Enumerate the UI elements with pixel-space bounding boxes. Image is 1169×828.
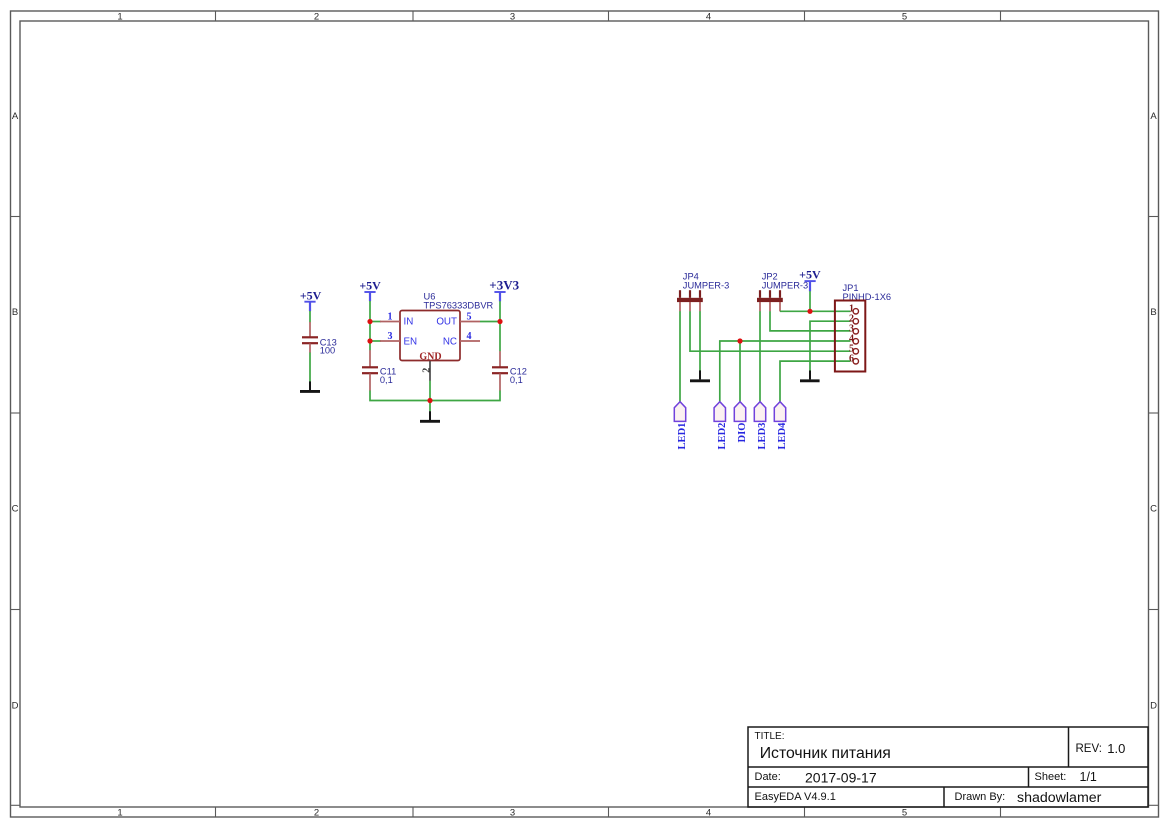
title block DrawnBy divider [943, 787, 945, 807]
power +5V symbol (C13) [304, 302, 315, 312]
column numbers bottom [117, 807, 907, 818]
svg-text:JUMPER-3: JUMPER-3 [762, 280, 809, 290]
wire +5V to C13 [309, 311, 311, 322]
capacitor C12 [492, 351, 508, 391]
svg-text:4: 4 [706, 11, 711, 22]
power +3V3 symbol [494, 292, 505, 301]
junction out rail [497, 319, 502, 324]
column ticks bottom [216, 807, 1001, 817]
right strip bottom tick [1149, 804, 1159, 806]
wire JP2 pin1 to LED3 [759, 311, 761, 402]
svg-text:3: 3 [510, 11, 515, 22]
title block Sheet divider [1028, 767, 1030, 787]
wire node to pin3 [370, 340, 381, 342]
jumper JP2 [757, 290, 783, 311]
U6 pin 3 line [380, 340, 400, 342]
svg-text:1: 1 [117, 11, 122, 22]
svg-text:LED1: LED1 [677, 423, 688, 450]
U6 pin 4 line [460, 340, 480, 342]
svg-text:Sheet:: Sheet: [1035, 771, 1067, 783]
svg-text:JUMPER-3: JUMPER-3 [683, 280, 730, 290]
svg-text:4: 4 [467, 331, 472, 342]
svg-text:+5V: +5V [300, 289, 322, 303]
wire +5V rail down to C11 [369, 301, 371, 350]
junction +5V/pin1 [807, 309, 812, 314]
junction bottom rail [427, 398, 432, 403]
net flag LED2 [714, 402, 725, 422]
svg-text:2: 2 [314, 11, 319, 22]
svg-text:3: 3 [388, 331, 393, 342]
wire JP2 pin3 to header pin1 [780, 310, 851, 312]
wire header pin2 to ground [810, 321, 851, 370]
svg-text:1/1: 1/1 [1080, 770, 1097, 784]
svg-text:B: B [1150, 307, 1156, 318]
U6 pin 1 line [380, 321, 400, 323]
title block REV divider [1068, 727, 1070, 767]
svg-text:LED2: LED2 [717, 423, 728, 450]
junction rail/pin3 [367, 338, 372, 343]
svg-text:Date:: Date: [755, 771, 781, 783]
IC U6 TPS76333DBVR body [400, 311, 460, 361]
svg-text:2: 2 [421, 368, 432, 373]
svg-text:+5V: +5V [799, 268, 821, 282]
svg-text:5: 5 [902, 11, 907, 22]
junction rail/pin1 [367, 319, 372, 324]
jumper JP4 [677, 290, 703, 311]
wire node to pin1 [370, 321, 381, 323]
svg-text:DIO: DIO [737, 423, 748, 443]
svg-text:D: D [1150, 701, 1157, 712]
header JP1 body [835, 301, 865, 372]
svg-text:D: D [12, 701, 19, 712]
svg-text:REV:: REV: [1076, 743, 1102, 755]
svg-text:4: 4 [706, 807, 711, 818]
svg-text:Источник питания: Источник питания [760, 745, 891, 762]
svg-text:TITLE:: TITLE: [755, 731, 785, 742]
svg-text:A: A [1150, 111, 1157, 122]
JP1 pin circles [853, 309, 858, 364]
svg-text:OUT: OUT [436, 317, 457, 328]
ground (header) [800, 371, 820, 381]
svg-text:1.0: 1.0 [1107, 741, 1125, 756]
wire pin2 to bottom rail [429, 381, 431, 412]
svg-text:shadowlamer: shadowlamer [1017, 790, 1102, 806]
column numbers top [117, 11, 907, 22]
title block row line 2 [748, 786, 1148, 788]
svg-text:3: 3 [510, 807, 515, 818]
wire C11 to bottom rail [370, 391, 430, 401]
svg-text:100: 100 [320, 346, 336, 356]
svg-text:EasyEDA V4.9.1: EasyEDA V4.9.1 [755, 791, 836, 803]
ground (U6) [420, 411, 440, 421]
wire DIO branch [739, 341, 741, 402]
wire LED4 to header pin6 [780, 361, 851, 402]
svg-text:5: 5 [467, 312, 472, 323]
row ticks left [11, 217, 21, 610]
net flag DIO [734, 402, 745, 422]
svg-text:Drawn By:: Drawn By: [955, 791, 1006, 803]
wire pin5 to +3V3 rail [480, 321, 500, 323]
wire JP4 pin3 to ground [699, 311, 701, 370]
junction DIO/pin4 [737, 338, 742, 343]
wire JP4 pin1 to LED1 [679, 311, 681, 402]
svg-text:EN: EN [404, 337, 418, 348]
svg-text:5: 5 [902, 807, 907, 818]
wire LED2/DIO to header pin4 [720, 341, 851, 402]
U6 pin 5 line [460, 321, 480, 323]
svg-text:0,1: 0,1 [380, 375, 393, 385]
wire C12 to bottom rail [430, 391, 500, 401]
row ticks right [1149, 217, 1159, 610]
wire +3V3 rail down to C12 [499, 301, 501, 351]
svg-text:LED4: LED4 [777, 422, 788, 450]
row letters left [12, 111, 19, 712]
net flag LED4 [774, 402, 785, 422]
svg-text:A: A [12, 111, 19, 122]
svg-text:+5V: +5V [359, 278, 381, 292]
wire C13 to ground [309, 353, 311, 382]
svg-text:TPS76333DBVR: TPS76333DBVR [424, 301, 494, 311]
svg-text:1: 1 [117, 807, 122, 818]
wire +5V to header pin1 [809, 291, 811, 311]
svg-text:1: 1 [388, 312, 393, 323]
row letters right [1150, 111, 1157, 712]
ground (JP4) [690, 370, 710, 380]
net flag LED3 [754, 402, 765, 422]
svg-text:2017-09-17: 2017-09-17 [805, 769, 877, 785]
svg-text:+3V3: +3V3 [489, 277, 519, 292]
JP1 pin numbers [849, 303, 854, 364]
svg-text:NC: NC [443, 337, 457, 348]
svg-text:LED3: LED3 [757, 423, 768, 450]
svg-text:C: C [12, 504, 19, 515]
net flag LED1 [674, 402, 685, 422]
column ticks top [216, 11, 1001, 21]
svg-text:B: B [12, 307, 18, 318]
capacitor C13 [302, 322, 318, 353]
ground (C13) [300, 381, 320, 391]
wire JP4 pin2 to header pin5 [690, 311, 851, 351]
svg-text:6: 6 [849, 353, 854, 364]
U6 pin 2 line [429, 361, 431, 381]
title block outline [748, 727, 1148, 807]
power +5V symbol (header) [805, 281, 816, 291]
wire JP2 pin2 to header pin3 [770, 311, 851, 331]
svg-text:IN: IN [404, 317, 414, 328]
power +5V symbol (U6 input) [364, 292, 375, 301]
svg-text:C: C [1150, 504, 1157, 515]
left strip bottom tick [11, 804, 21, 806]
svg-text:2: 2 [314, 807, 319, 818]
capacitor C11 [362, 350, 378, 391]
title block row line 1 [748, 766, 1148, 768]
svg-text:GND: GND [419, 351, 441, 362]
svg-text:0,1: 0,1 [510, 375, 523, 385]
